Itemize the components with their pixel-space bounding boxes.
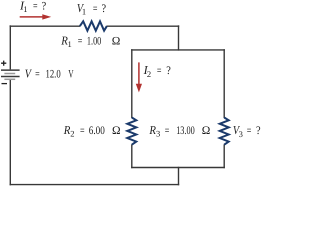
wire: outer bottom horizontal	[10, 184, 180, 186]
arrow I1 (red, right)	[20, 14, 52, 19]
svg-text:3: 3	[156, 128, 160, 138]
svg-text:1: 1	[82, 7, 86, 17]
svg-text:=: =	[93, 3, 98, 15]
wire: bottom feed vertical	[178, 167, 180, 186]
wire: outer left vertical below battery	[9, 79, 11, 185]
svg-text:=: =	[35, 69, 40, 81]
svg-text:V: V	[68, 69, 74, 81]
svg-text:2: 2	[70, 128, 74, 138]
svg-text:Ω: Ω	[112, 36, 121, 48]
label I1 = ?	[19, 0, 46, 14]
arrow I2 (red, down)	[136, 62, 142, 92]
svg-text:?: ?	[166, 65, 171, 77]
plate short	[4, 73, 15, 75]
plate long top	[1, 69, 20, 71]
svg-text:Ω: Ω	[202, 125, 211, 137]
wire: inner right vertical above R3	[223, 49, 225, 118]
label R3 = 13.00 ohm	[149, 123, 211, 139]
label I2 = ?	[143, 63, 171, 79]
label R1 = 1.00 ohm	[60, 34, 120, 50]
svg-text:=: =	[165, 125, 170, 137]
svg-text:6.00: 6.00	[89, 125, 105, 137]
svg-text:=: =	[33, 0, 38, 12]
svg-text:1.00: 1.00	[87, 36, 102, 48]
wire: inner right vertical below R3	[223, 144, 225, 168]
wire: top horizontal left of R1	[10, 25, 80, 27]
svg-text:=: =	[247, 125, 252, 137]
wire: top feed vertical	[178, 25, 180, 50]
wire: inner loop bottom horizontal	[131, 167, 225, 169]
svg-text:1: 1	[23, 4, 27, 14]
battery V	[1, 61, 20, 84]
svg-text:Ω: Ω	[112, 125, 121, 137]
label V = 12.0 V	[25, 67, 74, 81]
label V3 = ?	[233, 123, 261, 139]
plate short bottom	[4, 78, 15, 80]
wire: outer left vertical above battery	[9, 25, 11, 69]
plus sign	[1, 61, 6, 66]
svg-text:?: ?	[256, 125, 261, 137]
minus sign	[2, 83, 8, 85]
plate long	[1, 76, 20, 78]
svg-text:12.0: 12.0	[46, 69, 61, 81]
wire: inner left vertical below R2	[131, 144, 133, 168]
resistor R2 (vertical zigzag)	[127, 118, 136, 145]
svg-text:?: ?	[42, 0, 47, 12]
svg-text:1: 1	[68, 39, 72, 49]
label R2 = 6.00 ohm	[63, 123, 121, 139]
svg-text:=: =	[157, 65, 162, 77]
wire: top horizontal right of R1	[107, 25, 180, 27]
svg-text:=: =	[80, 125, 85, 137]
wire: inner left vertical above R2	[131, 49, 133, 118]
svg-text:=: =	[78, 36, 83, 48]
svg-text:2: 2	[147, 69, 151, 79]
svg-text:13.00: 13.00	[176, 125, 195, 137]
label V1 = ?	[77, 1, 106, 17]
svg-text:3: 3	[239, 129, 243, 139]
svg-text:?: ?	[102, 3, 107, 15]
wire: inner loop top horizontal	[131, 49, 225, 51]
resistor R3 (vertical zigzag)	[220, 118, 229, 145]
resistor R1 (horizontal zigzag)	[80, 21, 107, 30]
